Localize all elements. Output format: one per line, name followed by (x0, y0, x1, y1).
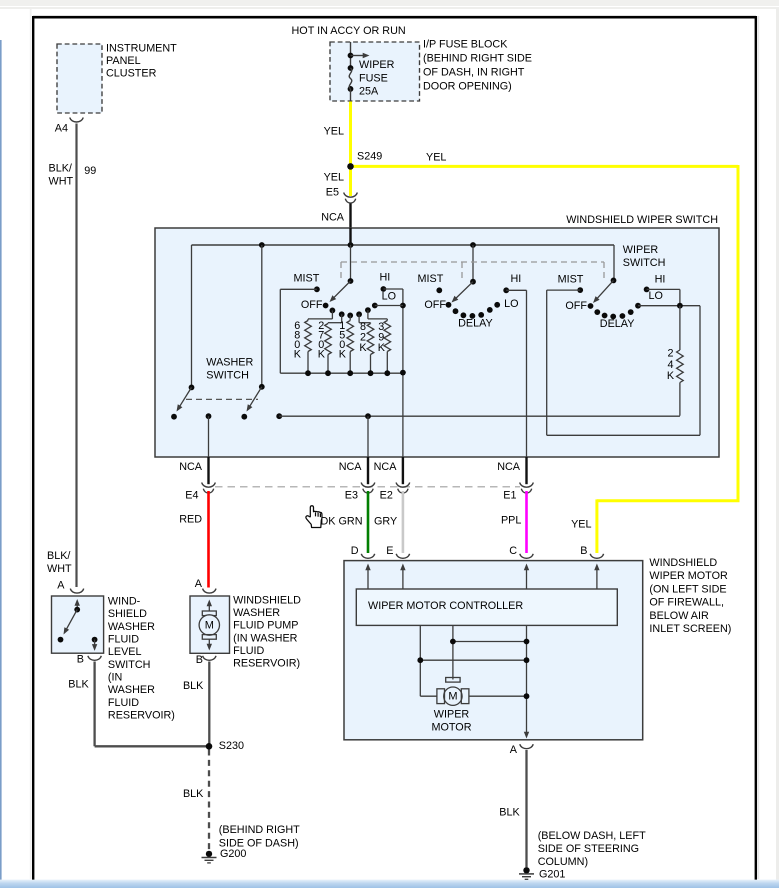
svg-text:25A: 25A (359, 85, 379, 97)
svg-text:I/P FUSE BLOCK: I/P FUSE BLOCK (423, 38, 508, 50)
svg-text:COLUMN): COLUMN) (538, 856, 588, 868)
svg-text:M: M (205, 619, 214, 631)
svg-text:K: K (318, 349, 326, 361)
svg-text:PPL: PPL (501, 515, 521, 527)
svg-text:B: B (580, 545, 587, 557)
svg-text:INLET SCREEN): INLET SCREEN) (649, 623, 731, 635)
svg-text:WIPER: WIPER (359, 59, 395, 71)
svg-text:WIPER MOTOR CONTROLLER: WIPER MOTOR CONTROLLER (368, 600, 523, 612)
svg-text:BLK/: BLK/ (47, 550, 70, 562)
svg-text:DOOR OPENING): DOOR OPENING) (423, 81, 512, 93)
svg-text:(BELOW DASH, LEFT: (BELOW DASH, LEFT (538, 830, 646, 842)
svg-text:A: A (195, 578, 203, 590)
svg-text:FLUID: FLUID (108, 697, 139, 709)
svg-text:K: K (359, 342, 367, 354)
svg-text:OF FIREWALL,: OF FIREWALL, (649, 597, 724, 609)
svg-text:FUSE: FUSE (359, 72, 388, 84)
svg-text:WINDSHIELD WIPER SWITCH: WINDSHIELD WIPER SWITCH (566, 214, 718, 226)
svg-text:K: K (294, 349, 302, 361)
svg-text:BLK/: BLK/ (49, 163, 72, 175)
svg-text:LO: LO (649, 290, 663, 302)
svg-text:S230: S230 (219, 740, 244, 752)
svg-text:HI: HI (380, 272, 391, 284)
svg-text:M: M (448, 691, 457, 703)
svg-text:YEL: YEL (324, 172, 344, 184)
svg-text:G200: G200 (220, 848, 246, 860)
svg-text:FLUID: FLUID (108, 633, 139, 645)
svg-text:RESERVOIR): RESERVOIR) (233, 658, 300, 670)
svg-text:MIST: MIST (418, 273, 444, 285)
svg-text:WASHER: WASHER (233, 607, 280, 619)
svg-text:WINDSHIELD: WINDSHIELD (649, 557, 717, 569)
svg-text:NCA: NCA (339, 461, 363, 473)
svg-text:PANEL: PANEL (106, 55, 141, 67)
svg-text:LO: LO (504, 298, 518, 310)
svg-text:OFF: OFF (301, 299, 323, 311)
svg-text:HI: HI (511, 273, 522, 285)
svg-text:E4: E4 (185, 490, 198, 502)
svg-text:OF DASH, IN RIGHT: OF DASH, IN RIGHT (423, 67, 525, 79)
svg-text:C: C (509, 545, 517, 557)
svg-text:BLK: BLK (68, 679, 89, 691)
svg-text:SHIELD: SHIELD (108, 608, 147, 620)
svg-text:(BEHIND RIGHT SIDE: (BEHIND RIGHT SIDE (423, 53, 532, 65)
svg-text:YEL: YEL (324, 126, 344, 138)
svg-text:SWITCH: SWITCH (623, 257, 666, 269)
svg-text:K: K (378, 342, 386, 354)
svg-text:GRY: GRY (374, 516, 397, 528)
svg-text:SWITCH: SWITCH (206, 370, 249, 382)
svg-text:E: E (386, 545, 393, 557)
svg-text:B: B (196, 654, 203, 666)
svg-text:HI: HI (655, 274, 666, 286)
svg-text:YEL: YEL (426, 151, 446, 163)
svg-text:K: K (339, 349, 347, 361)
svg-text:YEL: YEL (571, 519, 591, 531)
svg-text:LO: LO (382, 290, 396, 302)
svg-text:WASHER: WASHER (108, 621, 155, 633)
svg-text:BLK: BLK (499, 807, 520, 819)
svg-text:WIPER: WIPER (434, 708, 470, 720)
svg-text:WINDSHIELD: WINDSHIELD (233, 594, 301, 606)
svg-text:WASHER: WASHER (108, 684, 155, 696)
svg-text:WIPER: WIPER (623, 244, 659, 256)
svg-text:DELAY: DELAY (600, 318, 635, 330)
svg-text:A4: A4 (55, 122, 68, 134)
svg-text:SIDE OF STEERING: SIDE OF STEERING (538, 843, 639, 855)
svg-text:E5: E5 (326, 187, 339, 199)
svg-text:DELAY: DELAY (458, 317, 493, 329)
svg-text:NCA: NCA (374, 461, 398, 473)
svg-text:OFF: OFF (424, 299, 446, 311)
svg-text:WHT: WHT (47, 563, 72, 575)
svg-text:LEVEL: LEVEL (108, 646, 142, 658)
svg-text:OFF: OFF (565, 300, 587, 312)
svg-text:FLUID: FLUID (233, 645, 264, 657)
svg-text:(IN: (IN (108, 671, 122, 683)
svg-text:SWITCH: SWITCH (108, 659, 151, 671)
svg-text:DK GRN: DK GRN (321, 516, 363, 528)
svg-text:E1: E1 (503, 490, 516, 502)
svg-text:NCA: NCA (321, 211, 345, 223)
svg-text:WASHER: WASHER (206, 356, 253, 368)
svg-text:4: 4 (667, 359, 673, 371)
svg-text:S249: S249 (357, 151, 382, 163)
svg-text:RESERVOIR): RESERVOIR) (108, 709, 175, 721)
svg-text:D: D (351, 545, 359, 557)
svg-text:BLK: BLK (183, 788, 204, 800)
svg-text:BELOW AIR: BELOW AIR (649, 610, 709, 622)
svg-text:(IN WASHER: (IN WASHER (233, 632, 298, 644)
svg-text:2: 2 (667, 348, 673, 360)
svg-text:RED: RED (179, 514, 202, 526)
svg-text:99: 99 (84, 165, 96, 177)
svg-text:NCA: NCA (179, 461, 203, 473)
svg-text:A: A (510, 744, 518, 756)
svg-text:FLUID PUMP: FLUID PUMP (233, 620, 298, 632)
svg-text:WIND-: WIND- (108, 596, 141, 608)
svg-text:NCA: NCA (497, 461, 521, 473)
svg-text:MIST: MIST (294, 272, 320, 284)
svg-text:INSTRUMENT: INSTRUMENT (106, 42, 177, 54)
svg-text:MOTOR: MOTOR (432, 721, 472, 733)
svg-text:B: B (77, 654, 84, 666)
svg-text:WHT: WHT (49, 176, 74, 188)
svg-text:HOT IN ACCY OR RUN: HOT IN ACCY OR RUN (292, 25, 406, 37)
svg-text:CLUSTER: CLUSTER (106, 68, 157, 80)
svg-text:K: K (667, 370, 675, 382)
svg-text:(BEHIND RIGHT: (BEHIND RIGHT (219, 824, 300, 836)
svg-text:BLK: BLK (183, 680, 204, 692)
svg-text:MIST: MIST (558, 274, 584, 286)
svg-text:(ON LEFT SIDE: (ON LEFT SIDE (649, 583, 726, 595)
svg-text:E2: E2 (380, 490, 393, 502)
svg-text:A: A (57, 579, 65, 591)
svg-text:E3: E3 (345, 490, 358, 502)
svg-text:G201: G201 (539, 868, 565, 880)
svg-text:WIPER MOTOR: WIPER MOTOR (649, 570, 728, 582)
